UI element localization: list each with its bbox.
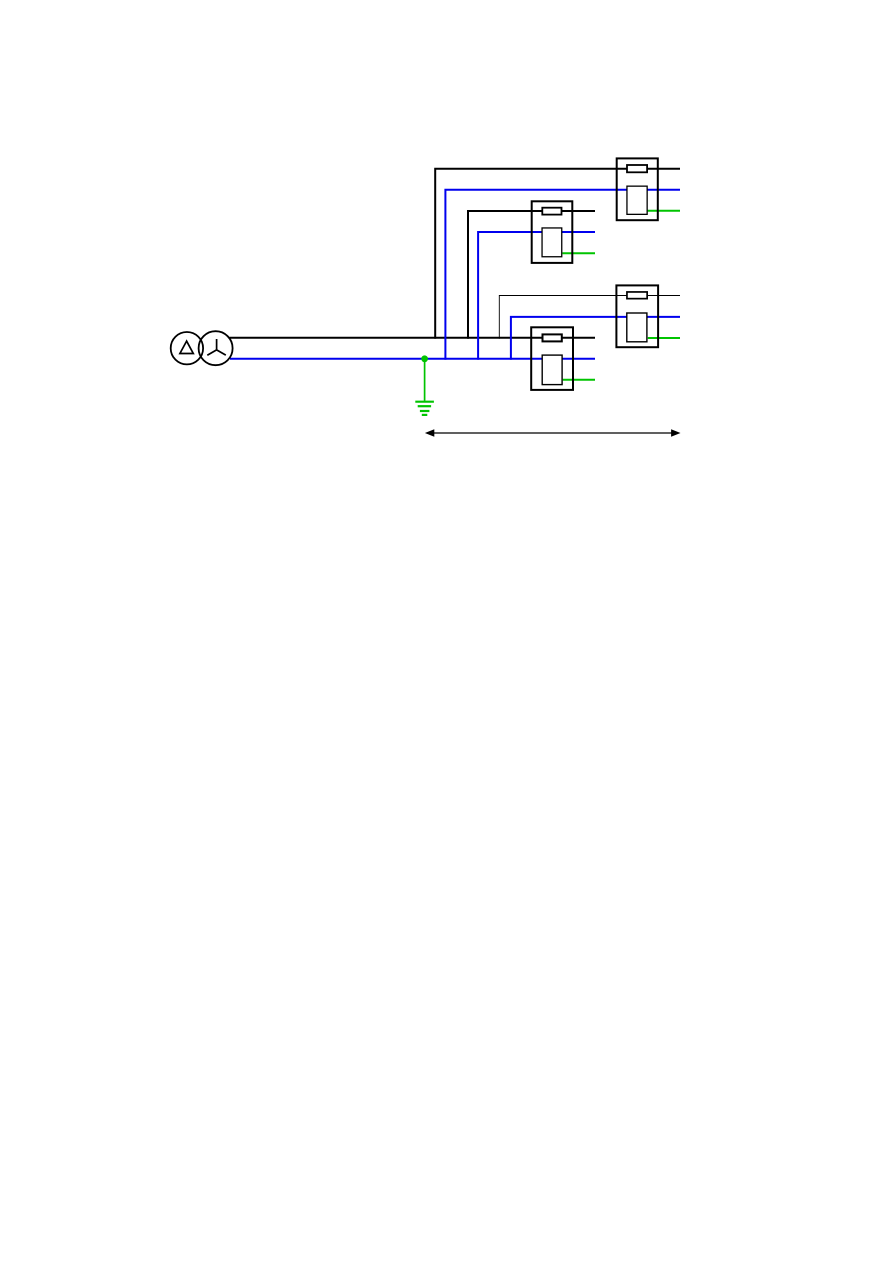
consumer unit 4: enclosure box [531,327,573,390]
consumer unit 2: enclosure box [532,201,573,263]
consumer unit 3: energy meter M3 (white-filled) [627,313,647,342]
wire: PE earth conductor of consumer unit 1 (green) [648,210,680,212]
wire: main LV phase line L (black) from transformer to consumer 4 [230,337,596,339]
wire: PE earth conductor of consumer unit 2 (green) [563,252,596,254]
consumer unit 3: service fuse F3 (white-filled) [627,292,647,299]
consumer unit 1: energy meter M1 (white-filled) [627,186,647,214]
wire: neutral branch to consumer unit 3 (blue, up then right) [511,317,680,360]
consumer unit 4: energy meter M4 (white-filled) [542,355,562,385]
transformer T1: wye (secondary) winding circle [199,331,233,365]
wire: main neutral line N (blue) from transformer to consumer 4 [230,358,595,360]
consumer unit 1: enclosure box [617,158,658,220]
ground: earth electrode symbol (green, four bars) [415,402,434,415]
node: neutral-to-earth junction dot (green) [421,355,428,362]
consumer unit 2: service fuse F2 (white-filled) [542,208,561,215]
wire: phase branch to consumer unit 1 (up then right) [435,169,680,339]
wire: neutral branch to consumer unit 1 (blue, up then right) [445,190,680,360]
consumer unit 2: energy meter M2 (white-filled) [542,228,562,257]
wire: neutral branch to consumer unit 2 (blue, up then right) [478,232,595,360]
wire: phase branch to consumer unit 3 (thin, up then right) [499,296,680,339]
consumer unit 1: service fuse F1 (white-filled) [627,165,647,172]
wire: PE earth conductor of consumer unit 3 (green) [648,337,680,339]
consumer unit 3: enclosure box [616,285,658,347]
consumer unit 4: service fuse F4 (white-filled) [543,334,562,341]
dimension arrow (double-headed) under the distribution zone [425,429,681,437]
wire: PE earth conductor of consumer unit 4 (green) [563,379,595,381]
wire: earthing conductor from neutral to earth electrode (green) [424,359,426,401]
transformer T1: delta (primary) winding circle [171,332,203,364]
wire: phase branch to consumer unit 2 (up then right) [468,211,595,339]
